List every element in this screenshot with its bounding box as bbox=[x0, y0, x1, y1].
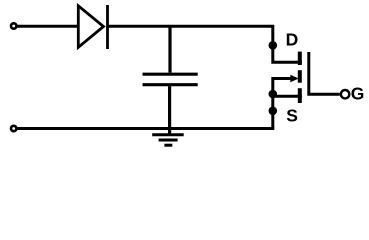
svg-text:S: S bbox=[286, 106, 298, 126]
svg-text:D: D bbox=[286, 30, 299, 50]
svg-text:G: G bbox=[351, 83, 365, 103]
